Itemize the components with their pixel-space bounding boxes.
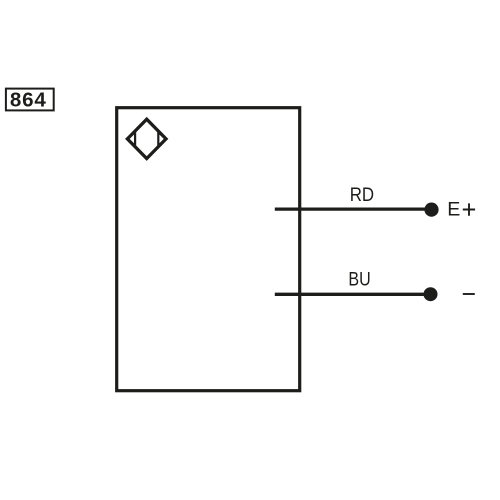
wire BU (bottom) [275, 293, 431, 296]
svg-text:864: 864 [10, 89, 47, 112]
emitter symbol left triangle [127, 132, 135, 145]
svg-text:BU: BU [348, 268, 370, 290]
terminal dot E+ [424, 203, 438, 217]
svg-text:RD: RD [350, 184, 374, 205]
emitter symbol diamond [127, 119, 166, 158]
svg-text:E: E [447, 199, 460, 221]
plus sign [463, 203, 475, 215]
minus sign [463, 293, 475, 295]
sensor body outline [117, 108, 300, 391]
wire RD (top) [275, 207, 432, 210]
figure number box 864 [6, 89, 54, 111]
emitter symbol right triangle [158, 132, 166, 145]
terminal dot minus [424, 287, 438, 301]
